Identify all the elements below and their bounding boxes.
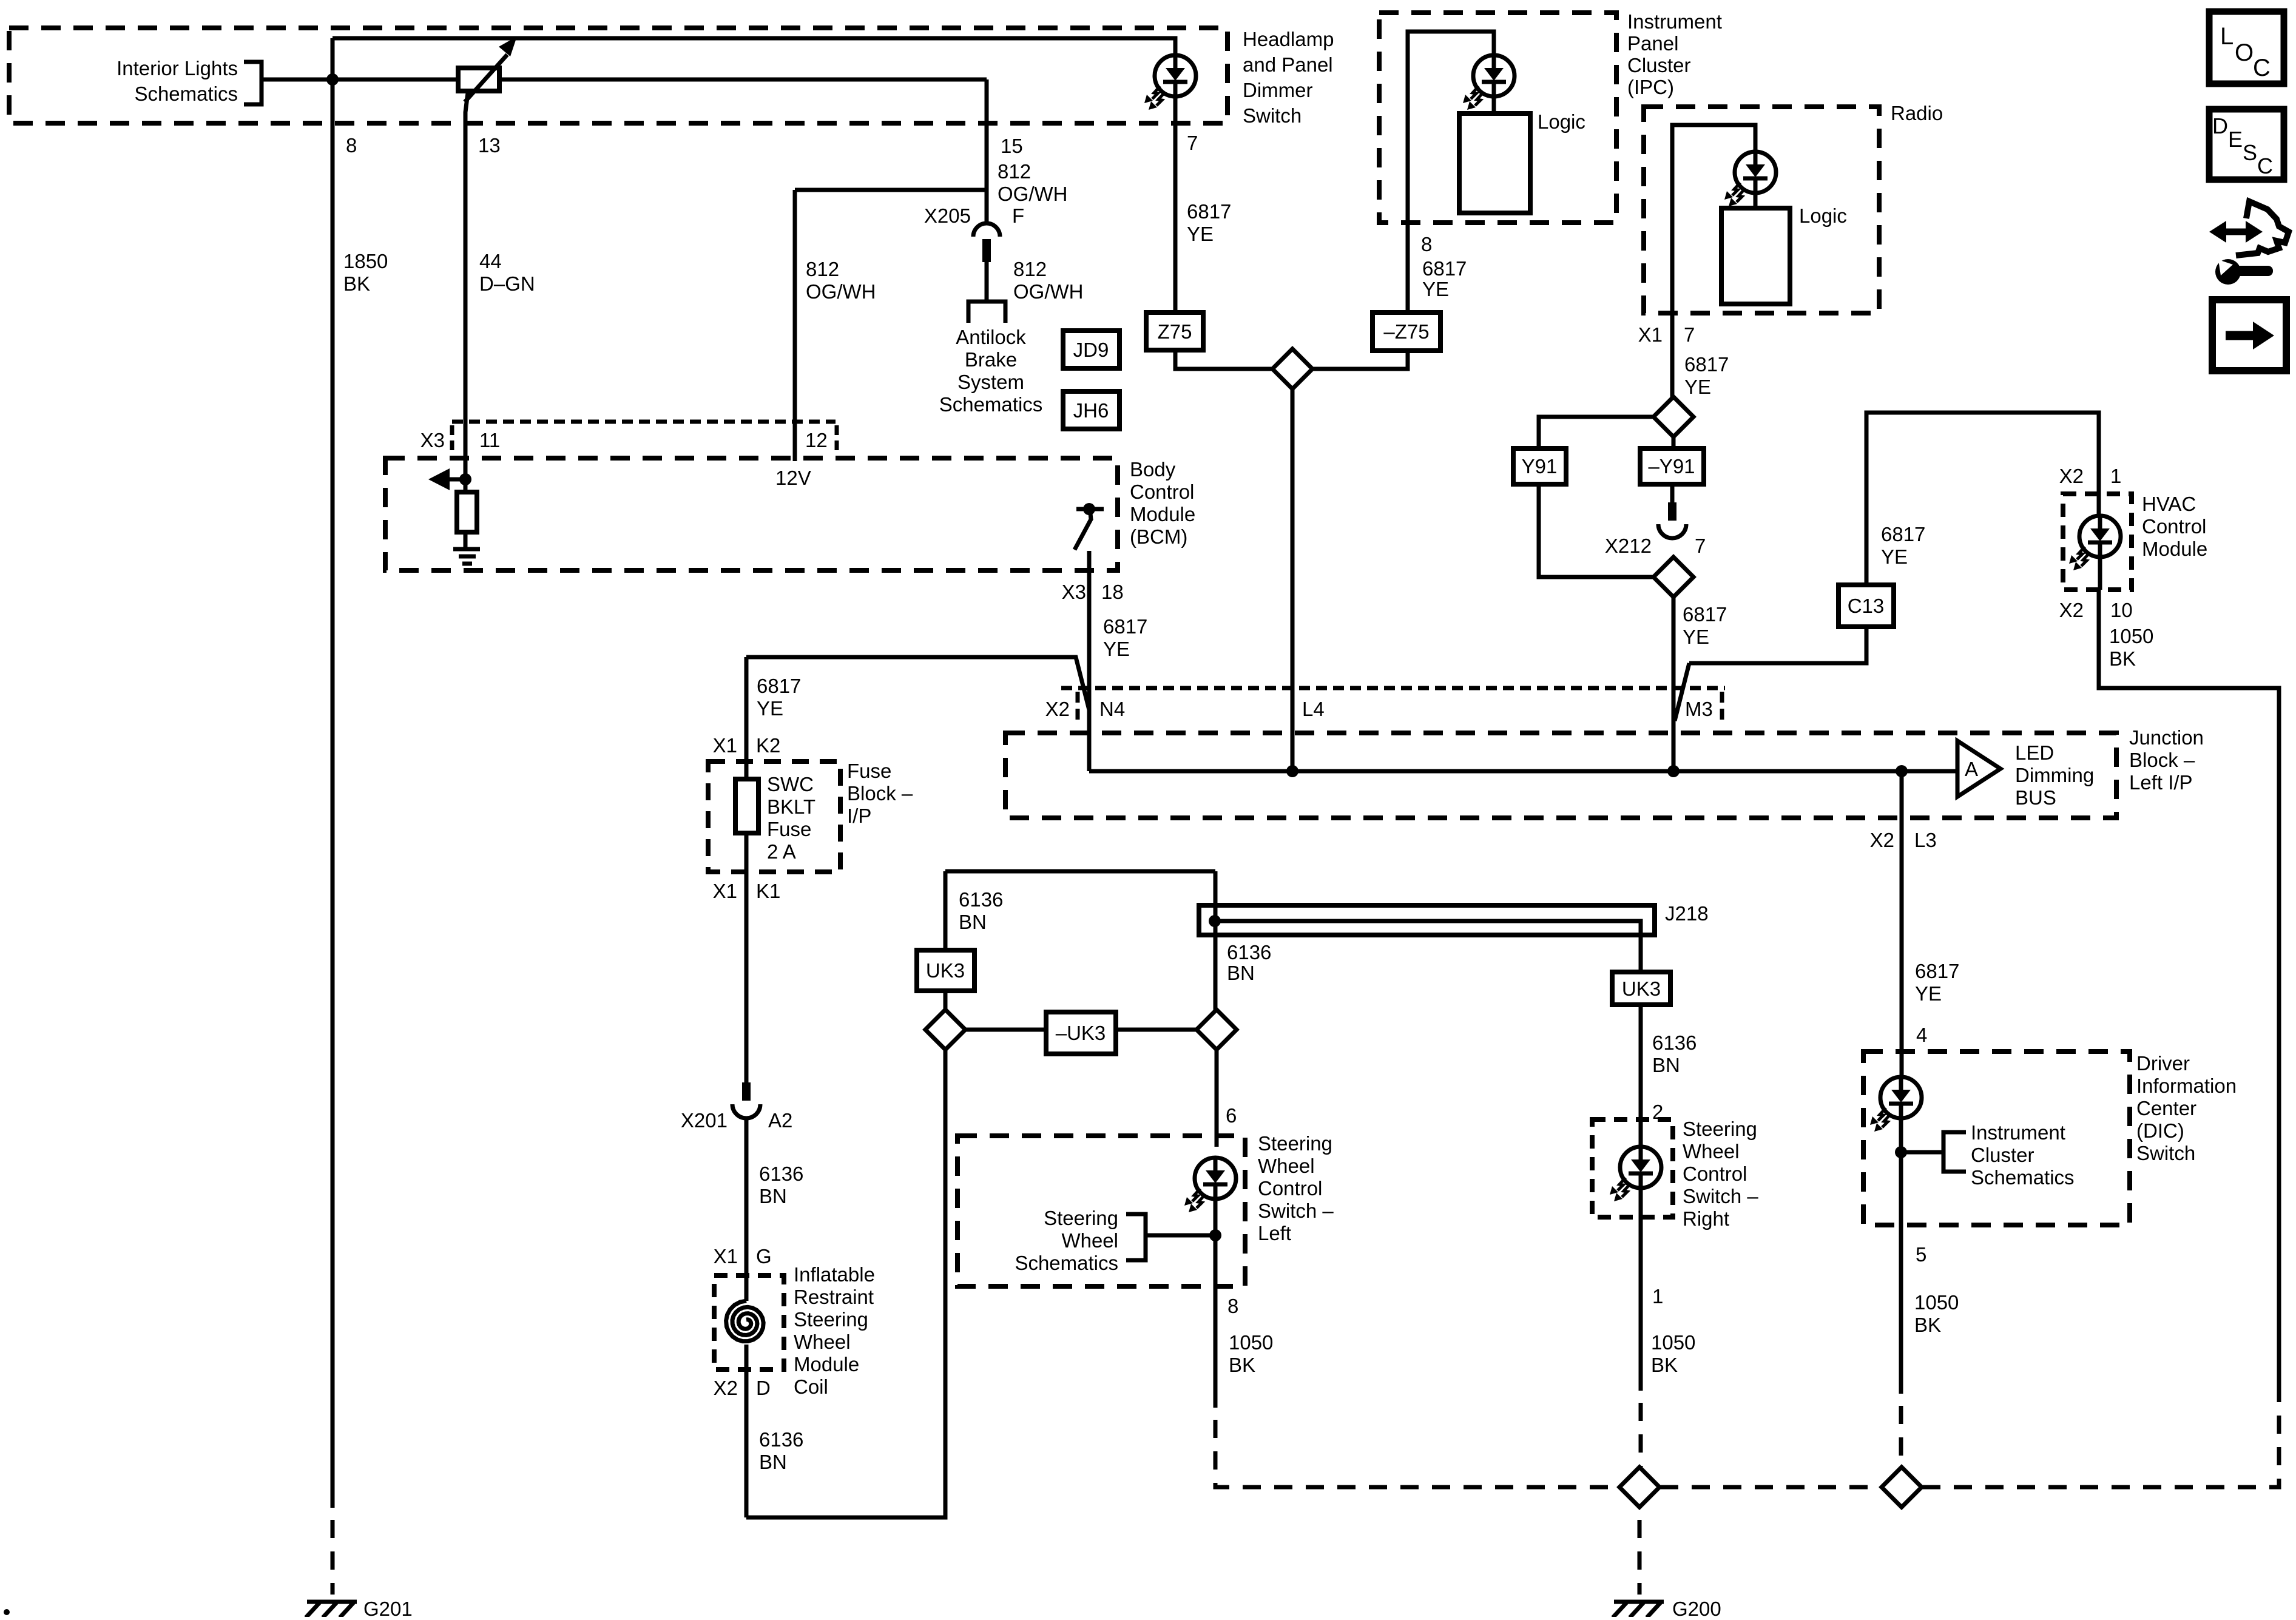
svg-text:YE: YE (1422, 278, 1449, 300)
svg-text:(IPC): (IPC) (1627, 76, 1674, 98)
svg-text:1050: 1050 (1651, 1331, 1695, 1354)
svg-text:Instrument: Instrument (1627, 10, 1722, 33)
svg-text:Control: Control (1258, 1177, 1322, 1200)
svg-text:J218: J218 (1665, 902, 1709, 925)
svg-text:7: 7 (1684, 323, 1695, 346)
svg-text:Y91: Y91 (1522, 455, 1558, 478)
svg-text:Logic: Logic (1538, 110, 1585, 133)
svg-text:6817: 6817 (1422, 257, 1467, 280)
wire: dashed to G200 (1638, 1508, 1642, 1595)
box: Driver Information Center (DIC) Switch (1863, 1051, 2130, 1225)
wire: bracket link (1146, 1234, 1215, 1238)
box: HVAC Control Module (2063, 494, 2132, 590)
connector line X2 (junction block) (1061, 688, 1725, 720)
svg-text:Block –: Block – (2129, 749, 2195, 771)
svg-text:YE: YE (1683, 626, 1709, 648)
svg-text:11: 11 (479, 429, 500, 451)
svg-text:D: D (2212, 113, 2228, 138)
wire: coil top stub (745, 1275, 749, 1301)
svg-text:X2: X2 (2059, 599, 2084, 621)
svg-text:BN: BN (959, 911, 987, 933)
wire: Y91 to lower diamond (1539, 484, 1653, 577)
svg-text:5: 5 (1916, 1243, 1926, 1266)
bus wire (1089, 769, 1957, 774)
wire: IPC lamp to logic (1492, 96, 1496, 115)
svg-text:M3: M3 (1685, 698, 1713, 720)
svg-text:Steering: Steering (1683, 1118, 1757, 1140)
reference UK3 (right) (1612, 972, 1670, 1005)
svg-text:X1: X1 (713, 734, 737, 757)
wire: 6136 BN fuse to X201 (745, 833, 749, 1082)
wire: radio lamp feed (1672, 125, 1755, 313)
junction: J218 splice (1209, 915, 1221, 927)
wire: 812 OG/WH below X205 (985, 262, 989, 300)
svg-text:BK: BK (343, 272, 370, 295)
reference Y91 (1513, 448, 1566, 484)
svg-text:12: 12 (805, 429, 828, 451)
svg-text:BN: BN (1652, 1054, 1680, 1076)
svg-text:YE: YE (757, 697, 783, 720)
svg-text:1050: 1050 (2109, 625, 2153, 647)
amplifier A: LED dimming bus driver (1957, 741, 2001, 797)
svg-text:Antilock: Antilock (956, 326, 1026, 348)
svg-text:Steering: Steering (1044, 1207, 1118, 1229)
connector X212 pin 7 (1658, 502, 1686, 538)
svg-text:X3: X3 (420, 429, 445, 451)
wire: bracket link DIC (1901, 1150, 1943, 1155)
wire: dashed tail DIC to G200 bus (1899, 1394, 1903, 1467)
svg-text:7: 7 (1187, 132, 1198, 154)
svg-text:BK: BK (2109, 647, 2136, 670)
wire: 6136 BN coil to loop (745, 1345, 749, 1517)
wire: 6817 YE to junction block M3 (1672, 598, 1676, 771)
svg-text:D: D (756, 1377, 771, 1399)
wire: pot to pin 15 (499, 78, 987, 82)
svg-text:Switch –: Switch – (1683, 1185, 1758, 1207)
wire: 6817 YE to junction block L4 (1291, 389, 1295, 771)
splice diamond: right (1197, 1010, 1237, 1050)
svg-text:8: 8 (1227, 1295, 1238, 1317)
svg-text:15: 15 (1001, 135, 1023, 157)
svg-text:Module: Module (1130, 503, 1195, 525)
svg-text:6136: 6136 (959, 888, 1003, 911)
svg-text:Control: Control (1130, 481, 1194, 503)
svg-text:X212: X212 (1605, 535, 1652, 557)
svg-text:O: O (2235, 39, 2254, 66)
svg-text:Information: Information (2136, 1075, 2237, 1097)
svg-text:Schematics: Schematics (939, 393, 1043, 416)
svg-text:BN: BN (759, 1451, 787, 1473)
svg-text:Panel: Panel (1627, 32, 1678, 55)
wire: into LED (1215, 1136, 1219, 1147)
svg-text:Coil: Coil (794, 1375, 828, 1398)
wire: 6136 BN to coil (745, 1118, 749, 1275)
svg-text:Schematics: Schematics (1015, 1252, 1118, 1274)
svg-text:YE: YE (1103, 638, 1130, 660)
wire: dashed 1050 BK to G200 bus (1215, 1408, 1619, 1487)
svg-text:Switch –: Switch – (1258, 1200, 1334, 1222)
svg-text:Module: Module (2142, 538, 2207, 560)
svg-text:BN: BN (1227, 962, 1255, 984)
svg-text:BUS: BUS (2015, 786, 2056, 809)
splice diamond: G200 left (1619, 1467, 1660, 1507)
svg-text:LED: LED (2015, 741, 2054, 764)
svg-text:X2: X2 (1870, 829, 1894, 851)
svg-text:Inflatable: Inflatable (794, 1263, 875, 1286)
svg-text:2 A: 2 A (767, 840, 796, 863)
svg-text:6136: 6136 (1227, 941, 1271, 964)
wire: 1050 BK HVAC to G200 corner (2099, 590, 2279, 1384)
svg-text:Right: Right (1683, 1207, 1729, 1230)
wire: 6817 YE lamp to Z75 (1173, 96, 1178, 312)
junction: dimmer wiper node (326, 73, 339, 86)
svg-text:D–GN: D–GN (479, 272, 535, 295)
wire: 6817 YE branch to SWC fuse (746, 657, 1089, 710)
svg-text:Instrument: Instrument (1971, 1121, 2065, 1144)
wire: -UK3 to right diamond (1116, 1028, 1197, 1032)
svg-text:Headlamp: Headlamp (1243, 28, 1334, 50)
lamp: HVAC control module backlight (2069, 516, 2121, 570)
svg-text:Schematics: Schematics (134, 83, 238, 105)
wire: 6136 BN top link (945, 869, 1215, 874)
svg-text:6136: 6136 (1652, 1031, 1697, 1054)
icon: arrow box (2212, 300, 2286, 371)
junction: BCM switch node (1083, 503, 1095, 515)
svg-text:X3: X3 (1062, 581, 1086, 603)
svg-text:812: 812 (998, 160, 1031, 183)
svg-text:Junction: Junction (2129, 726, 2204, 749)
box: Body Control Module (BCM) (385, 458, 1118, 570)
box: Junction Block - Left I/P (1005, 733, 2116, 818)
bracket: interior lights (244, 62, 262, 104)
svg-text:1050: 1050 (1229, 1331, 1273, 1354)
box: Fuse Block - I/P (708, 761, 840, 872)
svg-text:6: 6 (1226, 1104, 1237, 1127)
wire: -Y91 to X212 (1670, 484, 1675, 502)
svg-text:812: 812 (806, 258, 839, 280)
wire: dashed G200 bus right (1922, 1384, 2279, 1487)
svg-text:Fuse: Fuse (767, 818, 811, 840)
wire: 812 OG/WH above X205 (985, 79, 989, 222)
reference Z75 (1146, 312, 1203, 350)
ground G200 (1613, 1602, 1664, 1618)
wire: J218 bus to UK3 right (1215, 921, 1641, 972)
svg-text:Steering: Steering (1258, 1132, 1332, 1155)
svg-text:K1: K1 (756, 880, 780, 902)
logic block: IPC (1459, 113, 1530, 213)
stray mark bottom-left (4, 1609, 10, 1615)
wire: through J218 to diamond right (1214, 871, 1218, 1010)
svg-text:UK3: UK3 (926, 959, 965, 982)
svg-text:Left: Left (1258, 1222, 1291, 1244)
svg-text:Wheel: Wheel (1258, 1155, 1315, 1177)
svg-text:Control: Control (2142, 515, 2206, 538)
wire: dashed G200 bus middle (1660, 1485, 1881, 1490)
wire: IPC lamp feed (1408, 32, 1494, 223)
svg-text:X205: X205 (924, 204, 971, 227)
svg-text:2: 2 (1652, 1101, 1663, 1123)
icon: wire repair (arrow + wrench) (2209, 201, 2289, 285)
BCM output driver arrow (428, 468, 467, 490)
box: Inflatable Restraint Steering Wheel Module Coil (714, 1275, 784, 1369)
svg-text:G201: G201 (363, 1598, 413, 1617)
svg-text:1: 1 (1652, 1285, 1663, 1308)
reference -Y91 (1640, 448, 1704, 484)
wire: 6136 BN to right switch LED (1639, 1005, 1643, 1147)
wire: to resistor (464, 479, 468, 492)
svg-text:L3: L3 (1914, 829, 1937, 851)
wire: 6817 YE BCM X3-18 to junction block N4 (1087, 551, 1092, 771)
splice pack J218 (1199, 905, 1655, 935)
wire: 8 6817 YE to -Z75 (1406, 223, 1410, 312)
svg-text:L: L (2220, 23, 2234, 50)
svg-text:Switch: Switch (1243, 104, 1302, 127)
svg-text:YE: YE (1915, 982, 1942, 1005)
svg-text:BN: BN (759, 1185, 787, 1207)
splice diamond: X212 (1653, 557, 1693, 597)
svg-text:6817: 6817 (1915, 960, 1959, 982)
svg-text:12V: 12V (775, 467, 811, 489)
svg-text:Logic: Logic (1799, 204, 1847, 227)
svg-text:G: G (756, 1245, 772, 1267)
switch: BCM dimming output (1075, 509, 1104, 550)
wire: 1050 BK left switch (1214, 1198, 1218, 1408)
svg-text:and Panel: and Panel (1243, 53, 1333, 76)
svg-text:C: C (2253, 55, 2271, 81)
coil: inflatable restraint steering wheel module coil (clockspring) (726, 1301, 764, 1342)
svg-text:(DIC): (DIC) (2136, 1119, 2184, 1142)
box: Instrument Panel Cluster (IPC) (1379, 13, 1616, 223)
box: Radio (1644, 107, 1879, 313)
svg-text:L4: L4 (1302, 698, 1325, 720)
svg-text:Module: Module (794, 1353, 859, 1375)
svg-text:–Y91: –Y91 (1648, 455, 1695, 478)
svg-text:YE: YE (1881, 545, 1908, 568)
svg-text:A2: A2 (768, 1109, 792, 1132)
wire: dashed tail to G200 bus (1639, 1391, 1643, 1467)
wire: interior lights feed (262, 78, 458, 82)
svg-text:X201: X201 (681, 1109, 728, 1132)
box: Steering Wheel Control Switch - Left (957, 1136, 1245, 1286)
svg-text:8: 8 (1421, 233, 1432, 255)
svg-text:Wheel: Wheel (794, 1331, 851, 1353)
wire: top feed to dimmer lamp (333, 38, 1175, 58)
svg-text:N4: N4 (1099, 698, 1125, 720)
svg-text:–Z75: –Z75 (1383, 320, 1429, 343)
wire: 812 OG/WH to BCM pin 12 (793, 190, 797, 461)
wire: to -Y91 (1672, 437, 1676, 448)
reference UK3 (left) (917, 950, 974, 991)
svg-text:X2: X2 (2059, 465, 2084, 487)
svg-text:YE: YE (1684, 376, 1711, 398)
svg-text:Schematics: Schematics (1971, 1166, 2075, 1189)
svg-text:Steering: Steering (794, 1308, 868, 1331)
svg-text:(BCM): (BCM) (1130, 525, 1187, 548)
svg-text:SWC: SWC (767, 773, 814, 795)
svg-text:8: 8 (346, 134, 357, 157)
svg-text:6817: 6817 (1881, 523, 1925, 545)
svg-text:Cluster: Cluster (1971, 1144, 2034, 1166)
wire: UK3 to diamond (944, 991, 948, 1010)
svg-text:OG/WH: OG/WH (1013, 280, 1083, 303)
svg-text:1: 1 (2110, 465, 2121, 487)
splice diamond: radio (1653, 397, 1693, 437)
svg-text:UK3: UK3 (1622, 977, 1661, 1000)
svg-text:X2: X2 (1045, 698, 1070, 720)
svg-text:A: A (1965, 758, 1978, 780)
svg-text:812: 812 (1013, 258, 1047, 280)
wire: resistor to ground (464, 532, 468, 549)
fork symbol (968, 302, 1005, 323)
icon: LOC box (2209, 12, 2284, 84)
svg-text:13: 13 (478, 134, 501, 157)
wire: HVAC LED out (2098, 556, 2102, 590)
wire: into HVAC LED (2097, 494, 2101, 516)
wire: -Z75 to diamond (1312, 351, 1408, 369)
svg-text:C13: C13 (1848, 595, 1885, 617)
lamp: steering wheel control switch left backlight (1184, 1158, 1236, 1212)
svg-text:Fuse: Fuse (847, 760, 891, 782)
svg-text:X1: X1 (1638, 323, 1663, 346)
svg-text:BK: BK (1651, 1354, 1678, 1376)
junction: BCM pin11 node (459, 473, 471, 485)
svg-text:I/P: I/P (847, 805, 871, 827)
icon: DESC box (2209, 109, 2284, 180)
svg-text:Dimmer: Dimmer (1243, 79, 1312, 101)
splice diamond: G200 right (1882, 1467, 1922, 1507)
svg-text:JH6: JH6 (1073, 399, 1109, 422)
junction: L3 on bus (1896, 765, 1908, 777)
svg-text:BK: BK (1229, 1354, 1255, 1376)
svg-text:System: System (957, 371, 1024, 393)
lamp: radio backlight (1724, 152, 1776, 206)
svg-text:Control: Control (1683, 1163, 1747, 1185)
junction: DIC node (1895, 1146, 1907, 1158)
connector X201 pin A2 (732, 1082, 760, 1118)
wire: 1050 BK DIC switch (1899, 1118, 1903, 1394)
svg-text:Radio: Radio (1891, 102, 1943, 124)
svg-text:Block –: Block – (847, 782, 913, 805)
svg-text:Wheel: Wheel (1683, 1140, 1740, 1163)
svg-text:BKLT: BKLT (767, 795, 815, 818)
wire: radio X1-7 to diamond (1670, 313, 1675, 397)
svg-text:10: 10 (2110, 599, 2133, 621)
wire: 1850 BK to G201 (331, 38, 335, 1508)
resistor: dimmer potentiometer (458, 36, 517, 102)
junction: M3 on bus (1667, 765, 1680, 777)
svg-text:HVAC: HVAC (2142, 493, 2196, 515)
wire: Z75 to diamond (1175, 350, 1272, 369)
svg-text:Dimming: Dimming (2015, 764, 2094, 786)
wire: 1850 BK dashed tail (331, 1508, 335, 1595)
svg-text:X1: X1 (714, 1245, 738, 1267)
wire: 1050 BK right switch (1639, 1187, 1643, 1391)
wire: 6817 YE junction block L3 to DIC (1900, 771, 1904, 1077)
svg-text:X2: X2 (714, 1377, 738, 1399)
wire: 6136 BN to left switch box (1215, 1050, 1219, 1136)
svg-text:6817: 6817 (1684, 353, 1729, 376)
svg-text:6136: 6136 (759, 1163, 803, 1185)
bracket: instrument cluster schematics (1943, 1132, 1966, 1172)
svg-text:1850: 1850 (343, 250, 388, 272)
splice diamond: left (925, 1010, 965, 1050)
svg-text:6817: 6817 (757, 675, 801, 697)
svg-text:1050: 1050 (1914, 1291, 1959, 1314)
svg-text:Restraint: Restraint (794, 1286, 874, 1308)
svg-text:Z75: Z75 (1158, 320, 1192, 343)
svg-text:Switch: Switch (2136, 1142, 2195, 1164)
connector X205 pin F (973, 223, 1000, 262)
wire: C13 lower link (1689, 627, 1866, 663)
svg-text:44: 44 (479, 250, 502, 272)
svg-text:G200: G200 (1672, 1598, 1721, 1617)
junction: left switch node (1209, 1229, 1221, 1241)
lamp: DIC switch backlight (1870, 1077, 1922, 1132)
svg-text:6817: 6817 (1103, 615, 1147, 638)
reference -UK3 (1046, 1012, 1116, 1054)
ground G201 (306, 1602, 357, 1618)
svg-text:Brake: Brake (965, 348, 1017, 371)
svg-text:Left I/P: Left I/P (2129, 771, 2193, 794)
fuse: SWC BKLT Fuse 2A (735, 779, 758, 833)
wire: diagonal into M3 (1675, 663, 1689, 721)
wire: 6817 YE C13 to HVAC X2-1 (1866, 413, 2099, 585)
svg-text:Wheel: Wheel (1061, 1229, 1118, 1252)
svg-text:F: F (1012, 204, 1024, 227)
reference JD9 (1063, 331, 1119, 368)
svg-text:K2: K2 (756, 734, 780, 757)
wire: diamond to -UK3 (965, 1028, 1046, 1032)
svg-text:OG/WH: OG/WH (806, 280, 876, 303)
connector line X3 (BCM) (452, 422, 837, 452)
lamp: headlamp dimmer switch backlight (1144, 55, 1196, 110)
reference C13 (1838, 585, 1894, 627)
svg-text:6136: 6136 (759, 1428, 803, 1451)
svg-text:Body: Body (1130, 458, 1176, 481)
ground: BCM internal (453, 549, 480, 564)
splice diamond: Z75 (1272, 349, 1312, 389)
reference JH6 (1063, 391, 1119, 429)
svg-text:Cluster: Cluster (1627, 54, 1691, 76)
bracket: steering wheel schematics (1126, 1214, 1146, 1260)
box: Steering Wheel Control Switch - Right (1592, 1119, 1673, 1217)
svg-text:C: C (2257, 154, 2273, 178)
box: Interior Lights / Headlamp and Panel Dimmer Switch (9, 28, 1227, 123)
junction: L4 on bus (1286, 765, 1298, 777)
wire: into fuse (745, 657, 749, 779)
svg-text:4: 4 (1916, 1024, 1927, 1046)
svg-text:6817: 6817 (1683, 603, 1727, 626)
svg-text:YE: YE (1187, 223, 1214, 245)
svg-text:S: S (2243, 140, 2257, 165)
svg-text:JD9: JD9 (1073, 339, 1109, 361)
lamp: IPC backlight (1463, 55, 1514, 110)
svg-text:Center: Center (2136, 1097, 2196, 1119)
svg-text:6817: 6817 (1187, 200, 1231, 223)
logic block: Radio (1721, 208, 1790, 304)
svg-text:E: E (2228, 127, 2243, 152)
lamp: steering wheel control switch right backlight (1610, 1147, 1661, 1201)
reference -Z75 (1373, 312, 1440, 351)
wire: 44 D-GN to BCM pin 11 (465, 93, 468, 479)
svg-text:7: 7 (1695, 535, 1706, 557)
resistor: BCM pull-down (457, 492, 477, 532)
svg-text:18: 18 (1101, 581, 1124, 603)
wire: 6136 BN return loop to diamond (746, 1048, 945, 1517)
wire: 812 OG/WH branch (795, 188, 987, 192)
svg-text:Interior Lights: Interior Lights (116, 57, 238, 79)
svg-text:BK: BK (1914, 1314, 1941, 1336)
